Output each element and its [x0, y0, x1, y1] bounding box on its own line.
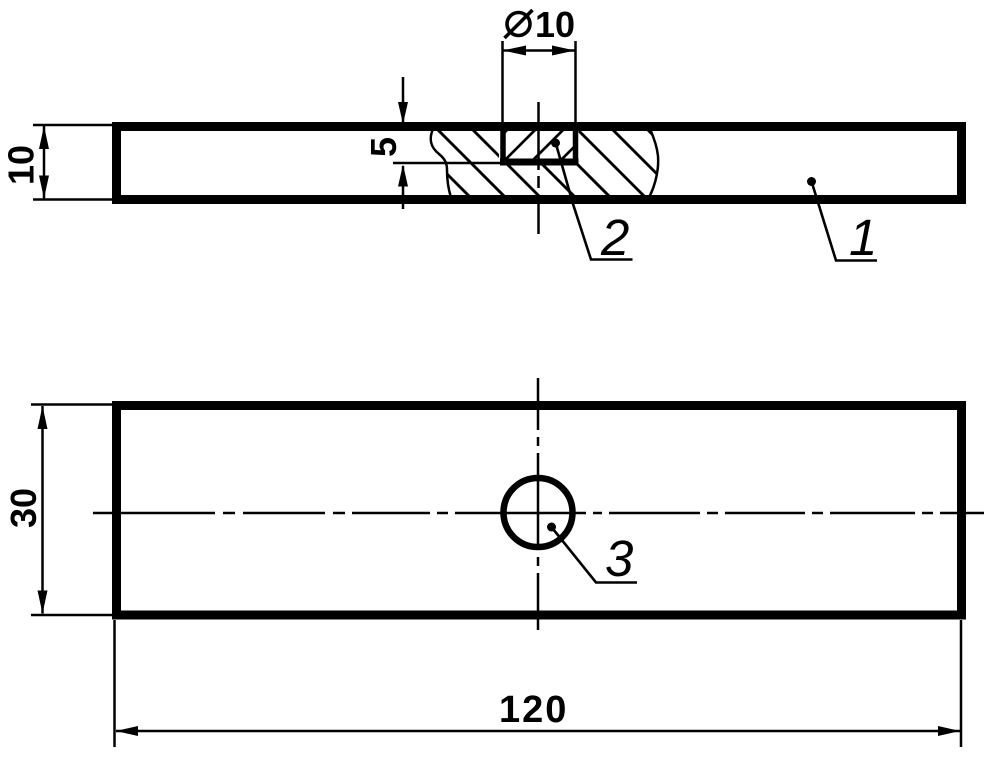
- recess right wall: [573, 126, 579, 163]
- section hatching of insert (part 2): [475, 127, 622, 162]
- section hatching of plate (part 1): [365, 127, 717, 199]
- dimension 10 dimension line with arrows: [43, 126, 46, 199]
- dimension 10 (plate thickness) extension lines: [33, 124, 119, 127]
- dimension 30 extension lines: [31, 403, 118, 406]
- recess left wall: [500, 126, 506, 163]
- plate outline (top view): [117, 406, 962, 616]
- svg-text:2: 2: [600, 209, 629, 266]
- leader line for part 3: [553, 529, 637, 583]
- diameter 10 dimension line with arrows: [503, 49, 575, 52]
- centerline of hole (side view): [537, 102, 540, 234]
- svg-text:3: 3: [605, 530, 633, 587]
- leader dot for part 1: [807, 177, 816, 186]
- svg-text:5: 5: [363, 137, 404, 157]
- horizontal centerline (top view): [93, 512, 984, 515]
- leader line for part 2: [556, 144, 633, 260]
- dimension 5 lower extension line: [393, 162, 509, 165]
- vertical centerline (top view): [537, 378, 540, 630]
- wavy break line right: [649, 129, 658, 198]
- wavy break line left: [431, 129, 451, 198]
- dimension 5 upper arrow: [402, 77, 405, 122]
- leader line for part 1: [812, 183, 877, 261]
- plate outline (side view): [117, 127, 962, 200]
- dimension 5 lower arrow: [402, 166, 405, 209]
- diameter symbol: [507, 13, 530, 36]
- svg-text:1: 1: [849, 209, 877, 266]
- svg-text:120: 120: [499, 689, 568, 731]
- leader dot for part 2: [551, 139, 560, 148]
- hole (part 3) circle: [504, 478, 573, 547]
- leader dot for part 3: [547, 523, 556, 532]
- svg-text:30: 30: [3, 488, 44, 528]
- dimension 120 dimension line with arrows: [116, 730, 960, 733]
- svg-text:10: 10: [1, 145, 42, 185]
- recess bottom: [500, 159, 579, 166]
- dimension 120 extension lines: [113, 620, 116, 747]
- dimension 30 dimension line with arrows: [41, 406, 44, 614]
- diameter 10 extension lines: [501, 41, 504, 127]
- svg-text:10: 10: [535, 4, 575, 45]
